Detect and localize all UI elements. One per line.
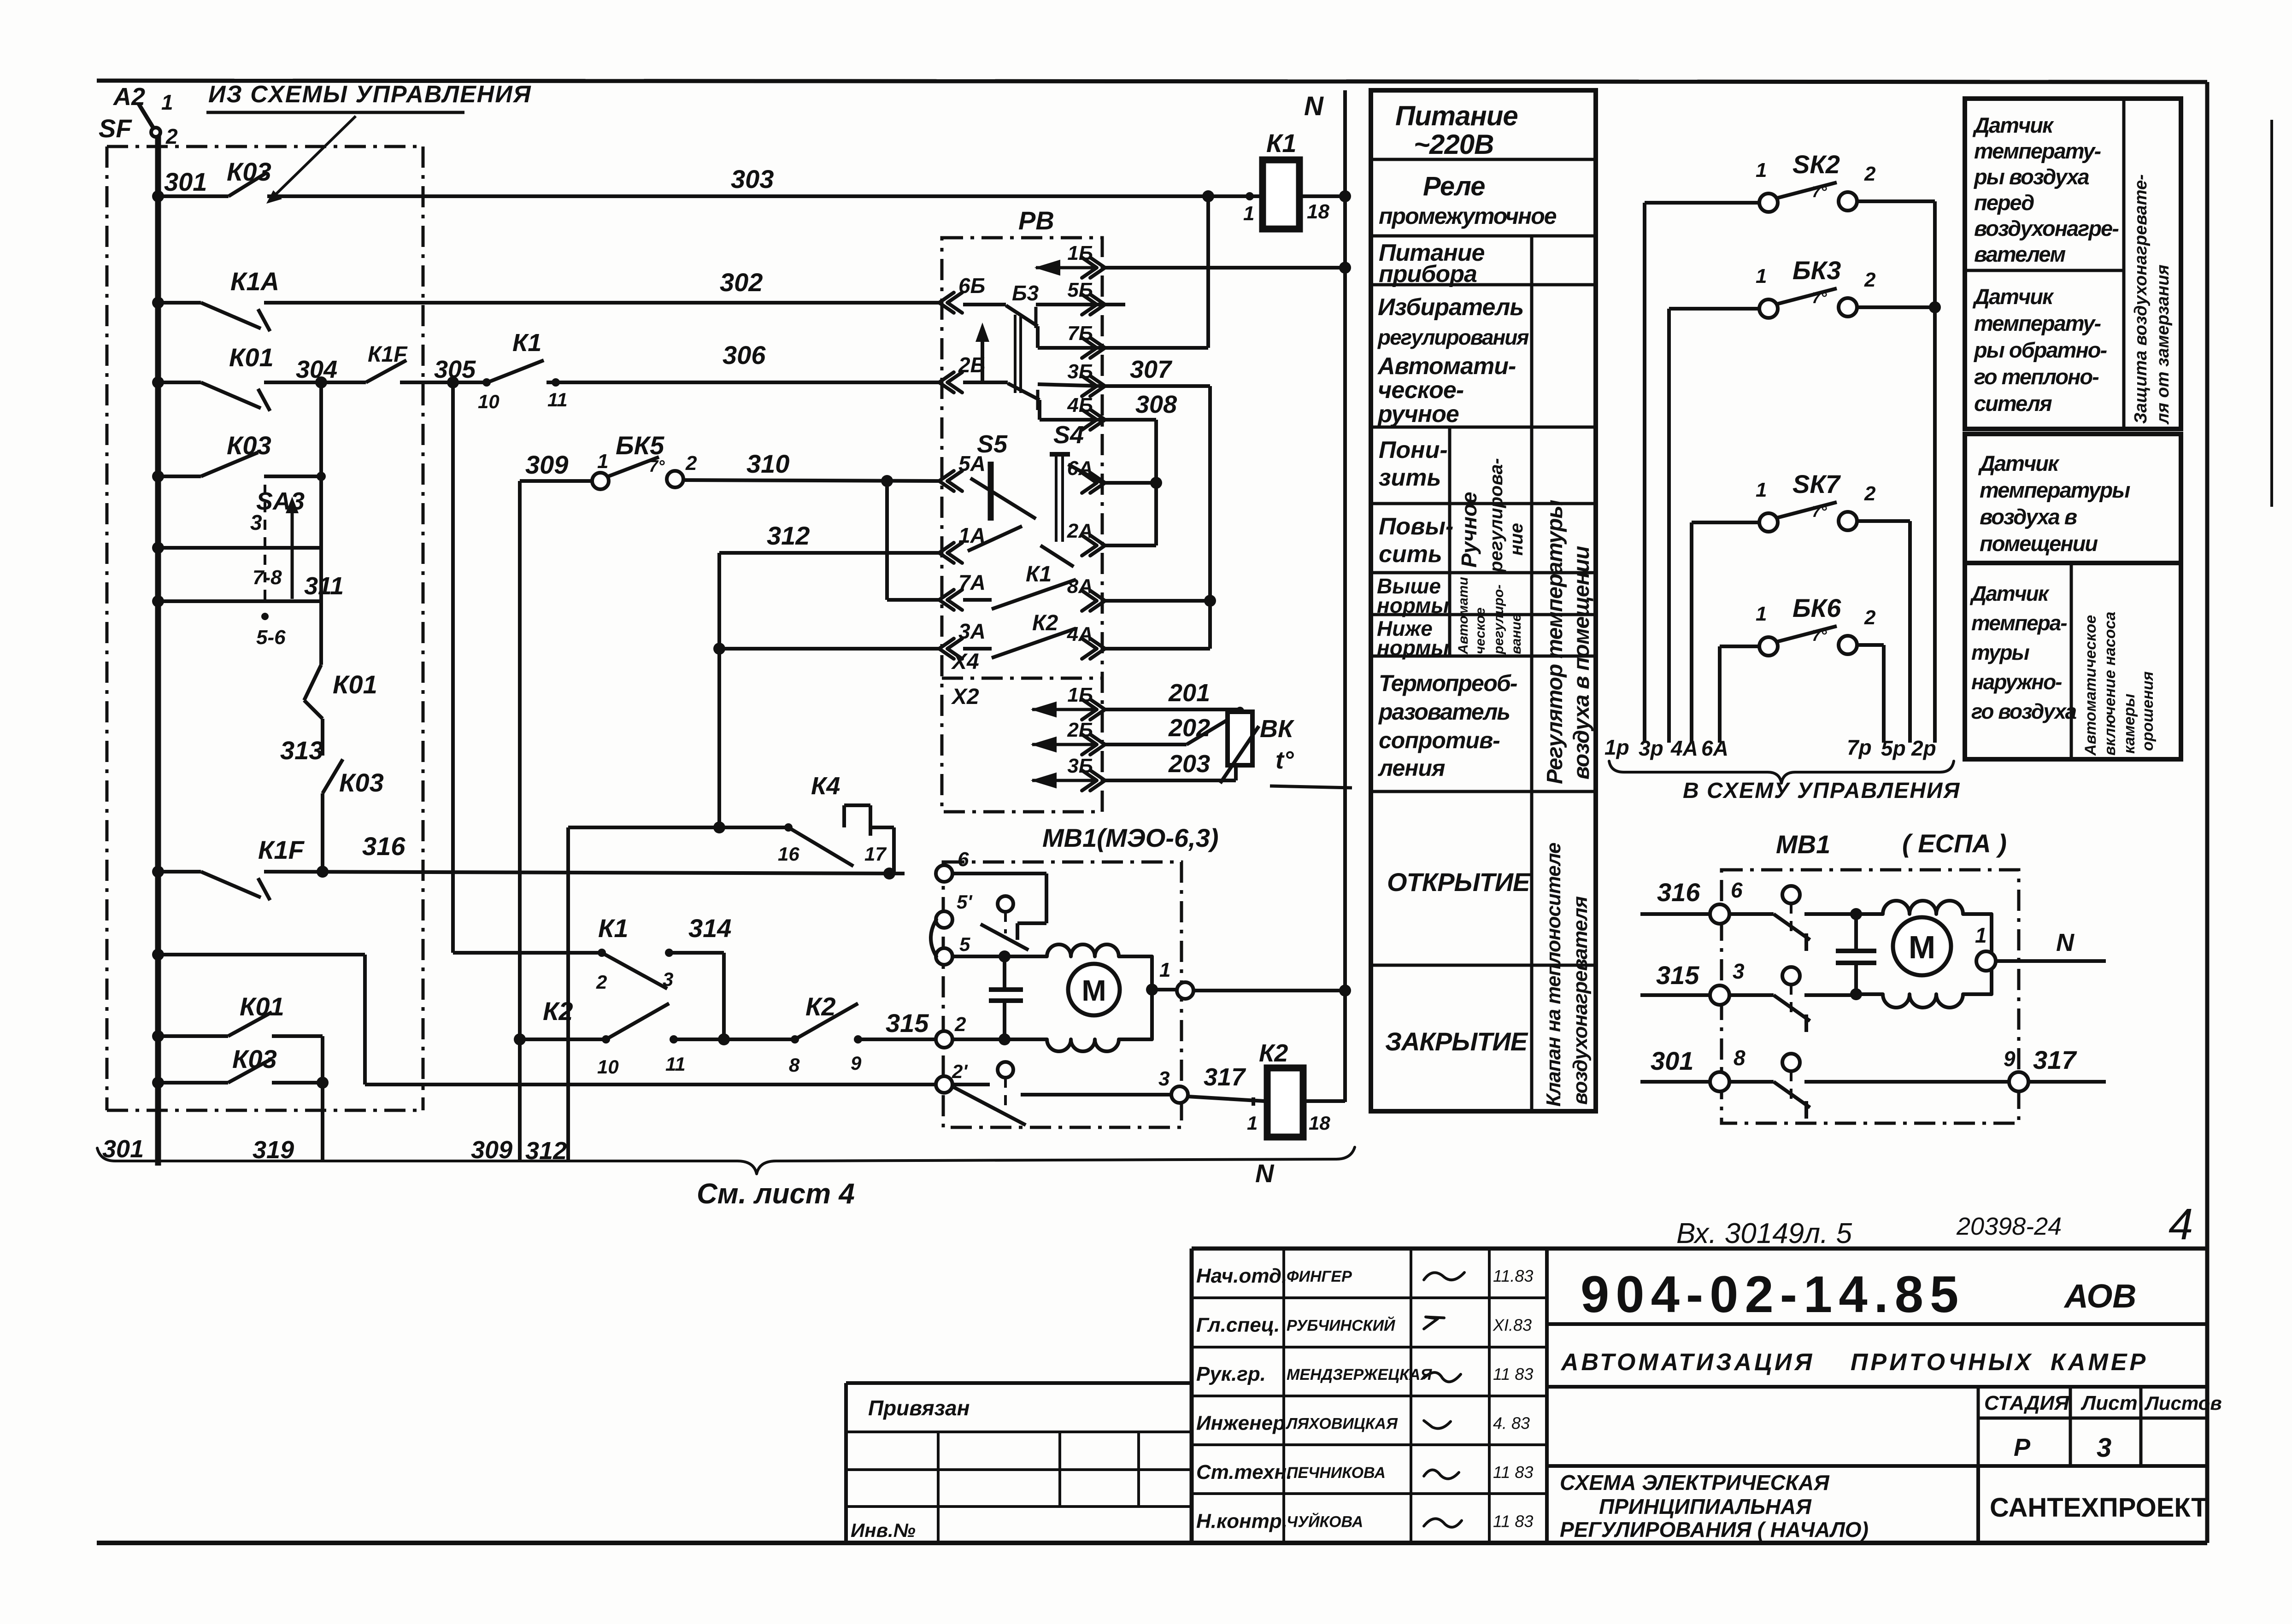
SA3 row 3 / node 311 [158, 599, 321, 603]
svg-text:МЕНДЗЕРЖЕЦКАЯ: МЕНДЗЕРЖЕЦКАЯ [1287, 1366, 1432, 1384]
svg-text:Н.контр.: Н.контр. [1196, 1510, 1287, 1533]
pin 3B x2 [1090, 770, 1105, 791]
wire 4A vertical [1690, 522, 1693, 743]
svg-text:К1: К1 [1026, 562, 1052, 586]
svg-text:10: 10 [478, 391, 500, 412]
svg-text:2': 2' [952, 1061, 968, 1082]
svg-text:904-02-14.85: 904-02-14.85 [1581, 1266, 1965, 1323]
svg-text:воздуха в: воздуха в [1980, 504, 2077, 529]
vertical 307->4A [1208, 386, 1212, 649]
svg-text:го теплоно-: го теплоно- [1974, 364, 2099, 389]
svg-text:4: 4 [2169, 1200, 2193, 1249]
svg-text:18: 18 [1309, 1112, 1330, 1134]
svg-text:1: 1 [1756, 479, 1767, 501]
svg-text:SК7: SК7 [1792, 469, 1841, 498]
svg-text:8: 8 [789, 1054, 800, 1076]
svg-text:наружно-: наружно- [1971, 670, 2062, 694]
drawing name cell [1547, 1464, 2207, 1468]
left attachment block [846, 1381, 1192, 1385]
svg-text:5-6: 5-6 [256, 626, 286, 649]
svg-text:SF: SF [99, 114, 132, 143]
svg-text:20398-24: 20398-24 [1956, 1213, 2062, 1240]
svg-text:Инв.№: Инв.№ [851, 1519, 916, 1541]
svg-text:СТАДИЯ: СТАДИЯ [1984, 1392, 2069, 1414]
motor M (ESPA) [1893, 917, 1951, 975]
svg-text:ления: ления [1378, 755, 1445, 781]
svg-text:ручное: ручное [1377, 401, 1459, 428]
wire 7B->303 branch [1102, 346, 1208, 350]
contact K03 (bottom row) [158, 1081, 228, 1085]
SA3 selector arrow [291, 501, 294, 599]
pin 2B [939, 372, 954, 393]
svg-text:прибора: прибора [1379, 261, 1477, 287]
svg-text:Датчик: Датчик [1978, 451, 2060, 475]
terminal 3 (ESPA) [1710, 985, 1729, 1005]
svg-text:К03: К03 [232, 1044, 277, 1073]
svg-text:11: 11 [665, 1053, 686, 1075]
svg-text:310: 310 [746, 449, 789, 478]
svg-text:Привязан: Привязан [868, 1396, 970, 1420]
svg-text:вание: вание [1509, 614, 1524, 654]
svg-text:5': 5' [957, 891, 973, 913]
svg-text:сопротив-: сопротив- [1379, 727, 1500, 753]
svg-text:4. 83: 4. 83 [1493, 1414, 1530, 1433]
svg-text:К1F: К1F [368, 342, 408, 367]
doc number cell [1547, 1322, 2207, 1326]
svg-text:БК5: БК5 [616, 431, 664, 460]
svg-text:туры: туры [1971, 640, 2029, 664]
wire 303 [158, 194, 229, 198]
svg-text:К01: К01 [333, 670, 377, 699]
terminal 3 [1171, 1086, 1188, 1103]
right table 2 frame [1965, 434, 2181, 563]
svg-text:201: 201 [1168, 679, 1210, 707]
svg-text:Ст.техн.: Ст.техн. [1196, 1461, 1292, 1483]
svg-text:орошения: орошения [2139, 671, 2157, 751]
MB1 contact 2prime [952, 1083, 990, 1086]
svg-text:7А: 7А [958, 570, 986, 594]
svg-text:К2: К2 [805, 992, 836, 1021]
svg-text:301: 301 [102, 1135, 144, 1163]
wire bus->SA3 [158, 475, 201, 478]
wire 315 [514, 1033, 526, 1045]
svg-text:го воздуха: го воздуха [1971, 699, 2076, 723]
svg-text:316: 316 [1657, 878, 1700, 907]
terminal 1 (MB1) [1146, 984, 1158, 996]
svg-text:Б3: Б3 [1012, 281, 1039, 305]
svg-text:5: 5 [959, 933, 970, 955]
svg-text:К1: К1 [512, 329, 541, 357]
svg-text:Листов: Листов [2144, 1392, 2222, 1414]
svg-text:t°: t° [1275, 746, 1294, 774]
svg-text:нормы: нормы [1377, 593, 1449, 617]
contact K01 (wire 306) [201, 382, 261, 408]
leader arrow [271, 116, 356, 199]
svg-text:температу-: температу- [1974, 139, 2101, 163]
vertical 308->2A [1154, 420, 1158, 545]
pin 1A [939, 543, 954, 563]
pin 4B [1090, 410, 1105, 430]
terminal 2 [936, 1031, 952, 1048]
svg-text:2: 2 [165, 124, 178, 148]
svg-text:ПЕЧНИКОВА: ПЕЧНИКОВА [1287, 1464, 1386, 1482]
svg-text:9: 9 [851, 1052, 862, 1074]
svg-text:316: 316 [362, 832, 406, 861]
svg-text:S4: S4 [1053, 421, 1084, 449]
svg-text:~220В: ~220В [1414, 129, 1493, 160]
wire 3p vertical [1667, 309, 1671, 743]
wire 201 [1102, 708, 1240, 711]
central legend table [1371, 90, 1596, 1111]
MB1 wire 5 [952, 955, 1005, 958]
pin 3B [1090, 376, 1105, 396]
svg-text:регулирования: регулирования [1377, 325, 1529, 349]
svg-text:9: 9 [2004, 1047, 2016, 1071]
main bus 301 (left vertical) [155, 135, 161, 1166]
svg-text:К03: К03 [227, 431, 271, 460]
svg-text:БК6: БК6 [1792, 593, 1841, 622]
svg-text:Защита воздухонагревате-: Защита воздухонагревате- [2131, 174, 2151, 424]
SA3 chain vertical [319, 382, 323, 665]
pin 8A [1090, 591, 1105, 611]
ESPA contact 8 [1729, 1080, 1774, 1084]
junction 303/branch [1202, 190, 1214, 202]
svg-text:К03: К03 [339, 768, 384, 797]
svg-text:температу-: температу- [1974, 311, 2101, 335]
svg-text:311: 311 [304, 572, 344, 600]
svg-text:1: 1 [1247, 1112, 1258, 1134]
svg-text:Рук.гр.: Рук.гр. [1196, 1363, 1266, 1385]
svg-text:307: 307 [1130, 356, 1173, 383]
sheet top border [97, 81, 2207, 82]
sheet right border [2205, 82, 2210, 1543]
svg-text:3: 3 [2097, 1433, 2111, 1463]
svg-text:БК3: БК3 [1792, 256, 1841, 285]
svg-text:воздуха в помещении: воздуха в помещении [1569, 546, 1594, 780]
svg-text:11: 11 [547, 389, 568, 410]
svg-text:2: 2 [1864, 606, 1876, 629]
B3 linkage [1014, 315, 1017, 393]
svg-text:3А: 3А [958, 619, 986, 643]
contact K1A [201, 303, 261, 328]
inductor top [1005, 944, 1152, 990]
svg-text:К4: К4 [811, 772, 840, 800]
arrow up near 2B [981, 333, 984, 382]
svg-text:N: N [2056, 929, 2075, 956]
svg-text:САНТЕХПРОЕКТ: САНТЕХПРОЕКТ [1990, 1493, 2208, 1523]
svg-text:1: 1 [1159, 959, 1170, 981]
svg-text:314: 314 [688, 914, 731, 943]
svg-text:темпера-: темпера- [1971, 611, 2067, 635]
wire 312 [719, 551, 942, 555]
svg-text:ры воздуха: ры воздуха [1973, 164, 2089, 189]
wire 6A vertical [1718, 646, 1722, 743]
svg-text:Избиратель: Избиратель [1378, 294, 1523, 321]
wire 203 [1102, 779, 1236, 782]
svg-text:11.83: 11.83 [1493, 1266, 1533, 1285]
svg-text:1: 1 [161, 90, 173, 114]
svg-text:2р: 2р [1911, 736, 1936, 760]
wire 314 down to 315 [722, 953, 726, 1039]
sheet bottom border [97, 1541, 2207, 1545]
svg-text:Лист: Лист [2080, 1392, 2138, 1414]
SA3 row 2 [158, 546, 321, 550]
svg-text:См. лист 4: См. лист 4 [697, 1178, 855, 1210]
wire 6A [1102, 481, 1156, 485]
loop 5prime-5 [931, 920, 936, 956]
inductor top (ESPA) [1856, 901, 1992, 961]
svg-text:1: 1 [597, 450, 608, 473]
svg-text:вателем: вателем [1974, 242, 2066, 266]
wire 310 [520, 479, 593, 483]
dash-dot boundary box of control section [107, 145, 423, 148]
svg-text:7°: 7° [1812, 503, 1827, 521]
svg-text:1р: 1р [1604, 735, 1629, 759]
svg-text:3: 3 [250, 510, 262, 534]
svg-text:В СХЕМУ УПРАВЛЕНИЯ: В СХЕМУ УПРАВЛЕНИЯ [1683, 779, 1960, 803]
svg-text:ПРИТОЧНЫХ: ПРИТОЧНЫХ [1851, 1349, 2033, 1376]
svg-text:305: 305 [434, 356, 476, 383]
svg-text:ПРИНЦИПИАЛЬНАЯ: ПРИНЦИПИАЛЬНАЯ [1599, 1495, 1812, 1518]
svg-text:2: 2 [1864, 269, 1876, 291]
svg-text:РВ: РВ [1018, 206, 1054, 235]
svg-text:включение насоса: включение насоса [2101, 612, 2119, 756]
terminal 6 (ESPA) [1710, 904, 1729, 924]
svg-text:306: 306 [723, 340, 766, 369]
svg-text:Инженер: Инженер [1196, 1412, 1285, 1435]
svg-text:ческое: ческое [1473, 608, 1488, 654]
thermistor BK [1236, 707, 1244, 715]
ESPA contact 6 [1729, 912, 1774, 916]
wire 5p vertical [1908, 521, 1912, 743]
svg-text:Автомати-: Автомати- [1377, 353, 1516, 380]
svg-text:регулирова-: регулирова- [1486, 458, 1506, 573]
svg-text:ры обратно-: ры обратно- [1973, 338, 2107, 362]
svg-text:перед: перед [1974, 190, 2034, 215]
svg-text:6Б: 6Б [958, 274, 985, 298]
svg-text:сителя: сителя [1974, 391, 2052, 416]
pin 2B x2 [1090, 734, 1105, 755]
svg-text:Датчик: Датчик [1969, 581, 2050, 605]
terminal 6 [936, 865, 952, 882]
wire 319 vertical [321, 1036, 324, 1160]
svg-text:АВТОМАТИЗАЦИЯ: АВТОМАТИЗАЦИЯ [1560, 1349, 1815, 1376]
svg-text:8: 8 [1734, 1046, 1745, 1070]
svg-text:6: 6 [1731, 878, 1743, 902]
svg-text:помещении: помещении [1980, 531, 2098, 556]
svg-text:301: 301 [164, 167, 207, 196]
svg-text:4А: 4А [1670, 736, 1698, 760]
terminal 5prime [936, 911, 952, 928]
svg-text:Датчик: Датчик [1972, 284, 2054, 309]
pin 3A [939, 639, 954, 659]
svg-text:ОТКРЫТИЕ: ОТКРЫТИЕ [1387, 868, 1531, 897]
stub 5B [1102, 303, 1125, 306]
svg-text:регулиро-: регулиро- [1491, 585, 1506, 655]
svg-text:2: 2 [1864, 482, 1876, 505]
contact K1F (wire 316) [201, 872, 261, 897]
svg-text:202: 202 [1168, 714, 1210, 742]
svg-text:2Б: 2Б [1067, 719, 1093, 741]
svg-text:3: 3 [1733, 959, 1745, 983]
wire 1->N [1193, 989, 1345, 992]
svg-text:К1А: К1А [230, 267, 279, 296]
MB1 ESPA box [1722, 870, 2019, 1123]
svg-text:К1: К1 [1266, 129, 1297, 158]
svg-text:К1: К1 [598, 914, 629, 943]
svg-text:Питание: Питание [1395, 100, 1518, 131]
pin 7B [1090, 338, 1105, 358]
svg-text:К2: К2 [1259, 1039, 1288, 1067]
svg-text:317: 317 [2033, 1045, 2077, 1074]
wire 4A [1102, 647, 1210, 651]
inductor bottom (ESPA) [1856, 961, 1992, 1008]
svg-text:ЛЯХОВИЦКАЯ: ЛЯХОВИЦКАЯ [1285, 1415, 1398, 1433]
contact K03 (wire 303) [229, 172, 267, 196]
terminal 8 (ESPA) [1710, 1072, 1729, 1091]
wire 17->316 [892, 827, 896, 874]
svg-text:Датчик: Датчик [1972, 113, 2054, 137]
svg-text:308: 308 [1135, 391, 1177, 418]
X4/X2 divider [942, 677, 1102, 680]
svg-text:8А: 8А [1067, 575, 1093, 598]
MB1 contact 6 [952, 872, 1046, 875]
svg-text:3Б: 3Б [1067, 360, 1093, 383]
wire 2p vertical [1933, 201, 1937, 743]
wire 8A [1102, 599, 1210, 603]
svg-text:МВ1: МВ1 [1776, 830, 1830, 859]
svg-text:АОВ: АОВ [2063, 1278, 2136, 1315]
svg-text:7р: 7р [1847, 735, 1872, 759]
svg-text:промежуточное: промежуточное [1379, 203, 1557, 229]
svg-text:ЗАКРЫТИЕ: ЗАКРЫТИЕ [1385, 1027, 1528, 1056]
svg-text:11 83: 11 83 [1493, 1463, 1533, 1482]
wire 302 [158, 301, 201, 305]
pin 1B x2 [1090, 699, 1105, 720]
names table [1192, 1296, 1547, 1299]
right table 1 frame [1965, 99, 2181, 429]
svg-text:СХЕМА ЭЛЕКТРИЧЕСКАЯ: СХЕМА ЭЛЕКТРИЧЕСКАЯ [1560, 1471, 1830, 1495]
svg-text:11 83: 11 83 [1493, 1365, 1533, 1384]
wire 317 (ESPA) [2028, 1080, 2106, 1084]
svg-text:Термопреоб-: Термопреоб- [1379, 670, 1517, 696]
contact K01 (chain 313) [304, 665, 321, 700]
svg-text:4Б: 4Б [1067, 394, 1093, 416]
svg-text:ВК: ВК [1260, 715, 1295, 743]
svg-text:312: 312 [767, 521, 810, 550]
brace see sheet 4 [97, 1147, 1355, 1174]
paper edge line right [2270, 120, 2273, 507]
svg-text:7°: 7° [1812, 183, 1827, 201]
svg-text:16: 16 [778, 843, 799, 865]
node 305 [447, 376, 459, 388]
svg-text:6А: 6А [1701, 736, 1728, 760]
svg-text:Клапан на теплоносителе: Клапан на теплоносителе [1542, 843, 1565, 1107]
pin 6A [1090, 473, 1105, 493]
terminal 9 (ESPA) [2009, 1072, 2028, 1091]
object name row [1547, 1385, 2207, 1389]
wire 316 [158, 870, 201, 874]
svg-text:Х2: Х2 [951, 685, 979, 709]
node 304 [315, 376, 327, 388]
svg-text:камеры: камеры [2121, 694, 2138, 754]
pin 1B [1090, 258, 1105, 278]
svg-text:XI.83: XI.83 [1493, 1316, 1532, 1335]
svg-text:К01: К01 [240, 992, 284, 1021]
capacitor (ESPA) [1850, 908, 1862, 920]
inductor bottom [1005, 990, 1152, 1051]
svg-text:1: 1 [1243, 202, 1254, 225]
wire 308 [1102, 418, 1156, 422]
pin 5A [939, 471, 954, 491]
svg-text:304: 304 [296, 356, 337, 383]
svg-text:2: 2 [954, 1013, 966, 1036]
svg-text:Автоматическое: Автоматическое [2082, 615, 2099, 756]
svg-text:воздухонагре-: воздухонагре- [1974, 216, 2119, 240]
wire 312 vertical [717, 553, 721, 827]
contact K1 (wire 306) pins 10 11 [482, 378, 491, 387]
pin 6B [939, 293, 954, 313]
svg-text:К1F: К1F [258, 835, 305, 864]
svg-text:Нач.отд.: Нач.отд. [1196, 1265, 1287, 1287]
svg-text:203: 203 [1168, 750, 1210, 778]
svg-text:1Б: 1Б [1067, 684, 1093, 706]
svg-text:Ручное: Ручное [1457, 492, 1481, 568]
time relay PB box [942, 238, 1102, 812]
svg-text:1: 1 [1756, 265, 1767, 287]
svg-text:ческое-: ческое- [1378, 377, 1463, 404]
wire 7p vertical [1882, 645, 1886, 743]
svg-text:М: М [1081, 974, 1106, 1007]
svg-text:2: 2 [596, 971, 607, 993]
wire N (ESPA) [1996, 959, 2106, 963]
terminal 1 (ESPA) [1986, 955, 1998, 967]
svg-text:2: 2 [1864, 163, 1876, 185]
svg-text:РЕГУЛИРОВАНИЯ ( НАЧАЛО): РЕГУЛИРОВАНИЯ ( НАЧАЛО) [1560, 1518, 1869, 1542]
svg-text:5Б: 5Б [1067, 279, 1093, 301]
thermal contact BK5 [592, 473, 609, 489]
contact K03 (SA3 row) [201, 452, 258, 476]
svg-text:Гл.спец.: Гл.спец. [1196, 1314, 1280, 1337]
svg-text:S5: S5 [977, 430, 1008, 458]
svg-text:Р: Р [2014, 1434, 2031, 1461]
svg-text:3р: 3р [1639, 736, 1663, 760]
capacitor MB1 [1003, 956, 1006, 990]
svg-text:5р: 5р [1881, 736, 1906, 760]
svg-text:SК2: SК2 [1792, 150, 1840, 179]
pin 7A [939, 590, 954, 610]
svg-text:4А: 4А [1067, 623, 1093, 645]
branch 3A [713, 643, 725, 655]
stage/sheet header [1977, 1387, 1980, 1466]
svg-text:7Б: 7Б [1067, 322, 1093, 345]
wire 309 vertical [518, 481, 522, 1160]
svg-text:К2: К2 [1032, 611, 1058, 635]
wire 1B->N [1102, 266, 1345, 270]
svg-text:М: М [1909, 929, 1935, 965]
svg-text:ЧУЙКОВА: ЧУЙКОВА [1287, 1513, 1363, 1531]
wire 314 row [453, 951, 602, 955]
pin 2A [1090, 535, 1105, 556]
wire bus->2prime [158, 953, 365, 956]
svg-text:3: 3 [663, 968, 673, 990]
svg-text:18: 18 [1307, 200, 1329, 223]
svg-text:нормы: нормы [1377, 636, 1449, 660]
svg-text:К03: К03 [227, 157, 271, 186]
svg-text:313: 313 [280, 736, 323, 765]
terminal 5 [936, 948, 952, 965]
right table 3 frame [1965, 563, 2181, 759]
